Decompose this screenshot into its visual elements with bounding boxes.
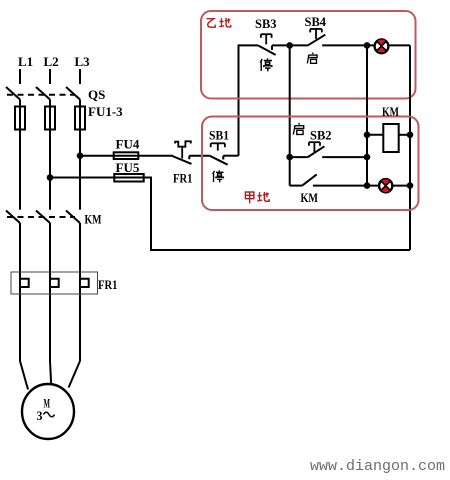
contactor KM auxiliary contact (NO, self-hold) (290, 174, 367, 185)
pushbutton SB4 label (305, 14, 327, 29)
svg-text:FU1-3: FU1-3 (88, 104, 123, 119)
node KM aux output junction dot (364, 182, 371, 189)
fuse FU1 (15, 107, 25, 130)
pushbutton SB2 (NO start) (290, 142, 367, 157)
indicator lamp HL2 (乙地) (375, 39, 389, 53)
thermal relay contact FR1 (NC) (172, 141, 191, 164)
control box 乙地 (red) (201, 11, 416, 99)
motor lead 2 slant (50, 361, 51, 385)
svg-text:QS: QS (88, 87, 105, 102)
switch QS linkage dashed line (7, 94, 75, 96)
pushbutton SB3 (NC stop) (258, 34, 275, 55)
wire FU5 to bottom return rail (144, 178, 410, 251)
wire L3 middle segment (79, 100, 81, 210)
glyph 甲 of 甲地 label (245, 192, 254, 203)
contactor KM main label (85, 212, 102, 227)
motor lead 3 slant (69, 361, 80, 388)
svg-text:www.diangon.com: www.diangon.com (310, 458, 445, 475)
FR1 heater element phase 3 (80, 279, 89, 287)
svg-text:SB2: SB2 (310, 128, 332, 143)
svg-text:KM: KM (85, 212, 102, 227)
node tap on L3 for control circuit (77, 152, 84, 159)
fuse FU5 (114, 174, 143, 182)
wire L2 top segment (49, 69, 51, 84)
glyph 停 under SB1 (213, 170, 224, 182)
contactor coil KM label (382, 104, 399, 119)
wire node B to lamp HL2 (367, 44, 410, 46)
wire from L2 tap to FU5 (50, 177, 114, 179)
node coil right junction dot (407, 132, 414, 139)
switch QS pole 3 blade (66, 87, 80, 100)
thermal relay FR1 heater box (11, 272, 98, 294)
node B junction dot (lamp tee, top) (364, 42, 371, 49)
wire riser to SB3 (239, 45, 259, 155)
contactor coil KM (367, 124, 410, 152)
FR1 heater label (98, 277, 118, 292)
switch QS pole 2 blade (36, 87, 50, 100)
svg-text:SB1: SB1 (209, 128, 229, 143)
wire L2 middle segment (49, 100, 51, 210)
svg-text:KM: KM (382, 104, 399, 119)
node coil left junction dot (364, 132, 371, 139)
pushbutton SB4 (NO start) (290, 29, 367, 46)
glyph 地 of 乙地 label (219, 18, 231, 27)
svg-text:FR1: FR1 (98, 277, 118, 292)
wire SB3 to node A (272, 44, 290, 46)
glyph 停 under SB3 (260, 58, 272, 71)
svg-text:KM: KM (301, 190, 319, 205)
pushbutton SB1 label (209, 128, 229, 143)
contactor KM main contacts pole 2 (36, 211, 50, 224)
wire L3 lower segment (79, 223, 81, 361)
glyph 启 under SB4 (307, 53, 317, 64)
wire right rail (409, 45, 411, 250)
FR1 heater element phase 1 (20, 279, 29, 287)
switch QS label (88, 87, 105, 102)
svg-text:L1: L1 (18, 54, 33, 69)
node tap on L2 for control circuit (47, 174, 54, 181)
node SB2 branch left junction dot (286, 154, 293, 161)
node L2 label (44, 54, 59, 69)
wire from L3 tap to FU4 (80, 155, 114, 157)
contactor KM main contacts pole 1 (6, 211, 20, 224)
fuse FU5 label (116, 160, 140, 175)
switch QS pole 1 blade (6, 87, 20, 100)
svg-text:M: M (44, 397, 51, 411)
svg-text:FR1: FR1 (173, 171, 193, 186)
node L3 label (75, 54, 91, 69)
svg-text:SB4: SB4 (305, 14, 327, 29)
svg-text:SB3: SB3 (255, 16, 277, 31)
contactor KM main linkage dashed line (7, 216, 75, 218)
wire KM aux row to lamp HL1 (367, 185, 410, 187)
fuse FU3 (75, 107, 85, 130)
fuse group FU1-3 label (88, 104, 123, 119)
KM auxiliary contact label (301, 190, 319, 205)
watermark www.diangon.com (310, 458, 445, 475)
glyph 乙 of 乙地 label (207, 19, 216, 27)
wire FU4 to FR1 contact (138, 155, 173, 157)
node L1 label (18, 54, 33, 69)
svg-text:FU4: FU4 (116, 137, 140, 152)
wire node B down bus (366, 45, 368, 185)
wire L3 top segment (79, 69, 81, 84)
contactor KM main contacts pole 3 (66, 211, 80, 224)
motor M 3~ (22, 384, 74, 439)
fuse FU4 label (116, 137, 140, 152)
fuse FU2 (45, 107, 55, 130)
svg-text:L2: L2 (44, 54, 59, 69)
svg-text:FU5: FU5 (116, 160, 140, 175)
motor lead 1 slant (20, 361, 28, 390)
pushbutton SB2 label (310, 128, 332, 143)
fuse FU4 (114, 152, 139, 159)
FR1 contact label (173, 171, 193, 186)
node lamp HL1 right junction dot (407, 182, 414, 189)
pushbutton SB1 (NC stop) (210, 143, 228, 164)
wire L2 lower segment (49, 223, 51, 361)
wire L1 top segment (19, 69, 21, 84)
svg-text:L3: L3 (75, 54, 91, 69)
svg-text:3: 3 (37, 409, 43, 423)
node A junction dot (after SB3) (286, 42, 293, 49)
node SB2 output junction dot (364, 154, 371, 161)
wire node A down to start branch (289, 45, 291, 185)
wire FR1 to SB1 (189, 155, 210, 157)
pushbutton SB3 label (255, 16, 277, 31)
wire SB1 to riser (223, 155, 238, 157)
wire L1 middle segment (19, 100, 21, 210)
glyph 地 of 甲地 label (257, 192, 269, 201)
control box 甲地 (red) (202, 117, 419, 211)
indicator lamp HL1 (甲地) (379, 179, 392, 192)
glyph 启 beside SB2 (293, 123, 303, 134)
FR1 heater element phase 2 (50, 279, 59, 287)
wire L1 lower segment (19, 223, 21, 361)
